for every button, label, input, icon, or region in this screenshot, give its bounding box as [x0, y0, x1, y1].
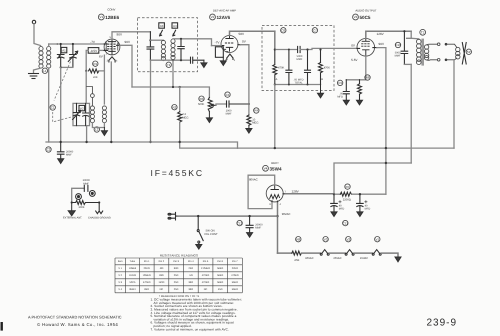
- node AC junction: [276, 215, 278, 217]
- wire B- bus left: [46, 142, 238, 148]
- capacitor C audio coupling: [227, 101, 249, 107]
- node bus x111.3: [110, 141, 112, 143]
- svg-text:90VAC: 90VAC: [282, 212, 291, 216]
- volume control R3: [198, 96, 216, 111]
- svg-text:22KΩ: 22KΩ: [144, 267, 150, 270]
- node AVC x179.7: [179, 86, 181, 88]
- capacitor couplate series 5000MMF: [298, 46, 301, 52]
- tube V1 pin numbers: [105, 36, 120, 55]
- svg-text:T1: T1: [167, 63, 171, 67]
- node x86.2 y70.9: [85, 70, 87, 72]
- node bus x179.7: [179, 141, 181, 143]
- wire couplate bottom bar: [275, 84, 321, 86]
- svg-text:R4: R4: [254, 109, 258, 113]
- gang line dashed: [53, 62, 73, 123]
- node bus x60.7: [60, 141, 62, 143]
- ground heater chain: [395, 257, 401, 262]
- svg-text:L2: L2: [95, 128, 99, 132]
- wire V3 plate to OPT: [366, 31, 411, 38]
- svg-text:300K: 300K: [78, 206, 84, 209]
- wire IF cap return to bus: [150, 60, 152, 142]
- svg-text:56KΩ: 56KΩ: [232, 281, 238, 284]
- wire OPT top frame: [407, 31, 412, 38]
- value 5000 MMF: [297, 55, 303, 61]
- ground filter cap 1: [331, 212, 337, 217]
- svg-text:35W4: 35W4: [270, 166, 282, 171]
- chassis squiggle ext: [96, 203, 103, 214]
- coil L1 secondary: [47, 47, 51, 69]
- node couplate bottom left: [274, 83, 276, 85]
- resistor R1 22K: [89, 61, 99, 79]
- svg-text:RECT: RECT: [271, 161, 279, 165]
- wire wiper to coupling cap: [216, 104, 227, 105]
- wire couplate series line: [275, 49, 298, 51]
- wire L2 bottom to ground: [92, 123, 104, 128]
- svg-text:V 2: V 2: [118, 274, 122, 277]
- value 40 MFD: [339, 204, 345, 210]
- ref speaker: [466, 49, 471, 54]
- wire heater chain 2: [302, 252, 321, 254]
- label SW ON VOL CONT: [204, 230, 218, 236]
- svg-text:MMF: MMF: [66, 154, 72, 157]
- terminal bullseye left: [76, 194, 82, 200]
- svg-text:CHASSIS GROUND: CHASSIS GROUND: [88, 217, 111, 220]
- tube V3 50C5 envelope: [357, 39, 375, 57]
- earth ground: [29, 74, 39, 79]
- svg-text:Pin 7: Pin 7: [232, 260, 238, 263]
- ground L2: [101, 128, 107, 136]
- wire RF grid line: [49, 43, 105, 45]
- ref C2: [46, 147, 51, 152]
- svg-text:25Ω: 25Ω: [189, 267, 194, 270]
- tube V2 internals: [224, 35, 234, 51]
- value 20000 MMF: [255, 223, 263, 229]
- wire grid box to osc tank: [86, 50, 88, 71]
- svg-text:MMF: MMF: [83, 182, 89, 185]
- ref L2: [94, 127, 99, 132]
- svg-text:15VAC: 15VAC: [360, 257, 368, 260]
- svg-text:V 1: V 1: [118, 267, 122, 270]
- svg-text:TOTAL: TOTAL: [294, 81, 303, 84]
- svg-text:126V: 126V: [377, 32, 385, 36]
- tube V4 pin stubs: [272, 194, 286, 203]
- wire OPT primary leads: [411, 37, 419, 40]
- IF secondary winding: [171, 39, 175, 60]
- svg-text:EXTERNAL ANT.: EXTERNAL ANT.: [63, 217, 82, 220]
- svg-text:22K: 22K: [93, 76, 98, 79]
- svg-text:MEG: MEG: [182, 116, 188, 119]
- wire V2 diode line: [240, 45, 249, 104]
- tube V4 35W4 envelope: [266, 185, 283, 202]
- ref heater chain 4: [375, 237, 380, 242]
- ground R4: [246, 125, 252, 133]
- svg-text:47Ω: 47Ω: [294, 259, 299, 262]
- external antenna circuit wires: [72, 188, 84, 202]
- svg-text:Pin 2: Pin 2: [159, 260, 165, 263]
- variable capacitor C1A tuning: [68, 44, 77, 67]
- svg-text:C7: C7: [313, 29, 317, 33]
- AC plug: [168, 212, 178, 220]
- svg-text:L1: L1: [43, 69, 47, 73]
- svg-text:Pin 6: Pin 6: [217, 260, 223, 263]
- svg-text:© Howard W. Sams & Co., Inc. 1: © Howard W. Sams & Co., Inc. 1954: [37, 322, 118, 327]
- IF primary winding: [161, 40, 165, 60]
- node switch tap: [197, 215, 199, 217]
- svg-text:470KΩ: 470KΩ: [202, 281, 210, 284]
- svg-text:80VAC: 80VAC: [249, 177, 258, 181]
- node ext ant right: [98, 201, 100, 203]
- ref heater chain 2: [323, 237, 328, 242]
- svg-text:V 4: V 4: [118, 288, 122, 291]
- resistor filter 2200: [334, 184, 352, 202]
- antenna terminal: [32, 20, 35, 23]
- svg-text:56KΩ: 56KΩ: [217, 267, 223, 270]
- svg-text:12BE6: 12BE6: [129, 267, 137, 270]
- ground volume control: [206, 112, 212, 123]
- svg-text:Pin 4: Pin 4: [188, 260, 194, 263]
- svg-text:AUDIO OUTPUT: AUDIO OUTPUT: [355, 9, 376, 13]
- svg-text:IF=455KC: IF=455KC: [151, 168, 204, 178]
- svg-text:.5Ω: .5Ω: [189, 274, 193, 277]
- value 40 MFD 2: [365, 204, 371, 210]
- node IF bottom x181: [180, 59, 182, 61]
- resistor 47 ohm heater: [292, 251, 302, 262]
- tube ref V2 circle: [210, 14, 216, 20]
- svg-text:10MEΩ: 10MEΩ: [143, 274, 151, 277]
- svg-text:56KΩ: 56KΩ: [217, 274, 223, 277]
- node bus x86.6: [85, 141, 87, 143]
- wire V3 cathode bar: [346, 56, 366, 80]
- heater V1 symbol: [372, 250, 381, 256]
- wire V1 plate to IF: [112, 32, 150, 39]
- svg-text:MEG: MEG: [252, 121, 258, 124]
- tube V3 pin stubs: [357, 47, 377, 50]
- svg-text:25Ω: 25Ω: [174, 288, 179, 291]
- capacitor IF secondary tuning: [178, 39, 184, 60]
- svg-text:470KΩ: 470KΩ: [143, 281, 151, 284]
- svg-text:V3: V3: [324, 237, 328, 241]
- node bus2 x385.9: [385, 147, 387, 149]
- wire 22K to cathode: [99, 55, 105, 71]
- capacitor couplate C: [305, 50, 311, 85]
- wire cathode line down to osc coil: [103, 71, 105, 104]
- wire V4 plate loop: [248, 175, 275, 208]
- OPT primary winding: [417, 39, 422, 64]
- svg-text:C9: C9: [338, 81, 342, 85]
- svg-text:22KΩ: 22KΩ: [232, 267, 238, 270]
- tube V4 pin numbers: [269, 190, 286, 206]
- notes block: [151, 298, 242, 332]
- ground couplate: [318, 85, 324, 98]
- wire IF bottom bar: [150, 59, 190, 61]
- svg-text:33Ω: 33Ω: [189, 281, 194, 284]
- IF transformer dashed box: [138, 18, 198, 72]
- wire tank bottom to bus: [86, 126, 88, 142]
- svg-text:Item: Item: [118, 260, 123, 263]
- switch SW on volume: [197, 216, 203, 244]
- ground switch: [196, 245, 202, 250]
- wire osc feed down to tank: [85, 71, 87, 104]
- svg-text:.8Ω: .8Ω: [159, 267, 163, 270]
- oscillator coil L2 right winding: [102, 106, 106, 123]
- svg-text:5.5V: 5.5V: [351, 58, 358, 62]
- tube V1 12BE6 envelope: [104, 39, 120, 55]
- node junction top wire x72.9: [72, 43, 74, 45]
- svg-text:150Ω: 150Ω: [158, 281, 164, 284]
- node B+ screen junction: [385, 162, 387, 164]
- ref heater chain 1: [296, 237, 301, 242]
- svg-text:MFD: MFD: [337, 96, 343, 99]
- OPT core: [421, 39, 424, 66]
- svg-text:R6: R6: [366, 76, 370, 80]
- node couplate input: [274, 48, 276, 50]
- tube ref V1 circle: [98, 14, 104, 20]
- svg-text:SP: SP: [467, 50, 471, 54]
- svg-text:C11: C11: [343, 221, 349, 225]
- svg-text:MMF: MMF: [226, 112, 232, 115]
- svg-text:B: B: [321, 78, 323, 81]
- ref cathode cap: [337, 80, 342, 85]
- svg-text:25VAC: 25VAC: [333, 257, 341, 260]
- tube V2 heater pins: [225, 59, 236, 62]
- node plate line at cap: [403, 30, 405, 32]
- wire antenna lead-in: [34, 24, 41, 46]
- svg-text:RESISTANCE READINGS: RESISTANCE READINGS: [160, 254, 198, 258]
- tube ref V3 circle: [353, 14, 359, 20]
- ref filter caps: [343, 220, 349, 225]
- svg-text:C1: C1: [51, 106, 55, 110]
- svg-text:A PHOTOFACT STANDARD NOTATION: A PHOTOFACT STANDARD NOTATION SCHEMATIC: [28, 315, 122, 320]
- svg-text:V3: V3: [354, 15, 358, 19]
- ref couplate left: [281, 28, 286, 33]
- wire V2 plate to couplate: [230, 31, 275, 35]
- ground external ant: [68, 203, 75, 216]
- ground cathode resistor: [357, 100, 363, 105]
- tube ref V4 circle: [263, 165, 269, 171]
- tube V2 12AV6 envelope: [221, 36, 238, 53]
- svg-text:Pin 5: Pin 5: [203, 260, 209, 263]
- wire V2 grid: [212, 45, 222, 47]
- ref C1 gang: [50, 105, 55, 110]
- ground line cap: [247, 233, 253, 238]
- wire heater chain 4: [354, 252, 372, 254]
- svg-text:V4: V4: [264, 167, 268, 171]
- wire OPT B+ drop: [410, 64, 412, 163]
- node bus x150.5: [149, 141, 151, 143]
- node AVC x173: [172, 86, 174, 88]
- adjust A1 antenna trimmer: [59, 47, 67, 57]
- ref T1: [166, 62, 171, 67]
- svg-text:12AV6: 12AV6: [217, 15, 231, 20]
- wire speaker leads: [446, 44, 457, 60]
- trimmer capacitor C1A trimmer: [57, 44, 64, 67]
- resistor cathode R6: [358, 75, 371, 100]
- terminal bullseye right: [89, 191, 95, 197]
- heater V2: [227, 54, 233, 60]
- svg-text:C10: C10: [395, 43, 401, 47]
- adjust A4: [172, 23, 178, 36]
- node IF bottom x173: [172, 59, 174, 61]
- ref L1: [42, 68, 47, 73]
- capacitor filter output 40MFD: [357, 194, 368, 212]
- svg-text:MFD: MFD: [365, 207, 371, 210]
- svg-text:A3: A3: [160, 24, 164, 28]
- value coupling cap: [226, 109, 232, 115]
- svg-text:A1: A1: [62, 49, 66, 53]
- capacitor IF bypass to ground: [191, 57, 204, 63]
- svg-text:NC: NC: [160, 288, 164, 291]
- heater V1: [109, 57, 115, 62]
- wire IF secondary top out: [173, 39, 212, 46]
- wire V4 cathode B+: [286, 193, 335, 195]
- svg-text:58V: 58V: [239, 32, 245, 36]
- ground chassis cap: [58, 159, 64, 164]
- svg-text:12BE6: 12BE6: [105, 15, 119, 20]
- svg-text:DET-AVC-AF AMP: DET-AVC-AF AMP: [213, 9, 236, 13]
- tube V1 internals: [106, 39, 118, 55]
- antenna coil L1 primary: [39, 47, 43, 69]
- tube V2 pin stubs: [221, 44, 240, 47]
- node B+ input: [333, 193, 335, 195]
- value .05 MFD TOTAL: [294, 78, 304, 84]
- wire V4 heater to AC and heater string: [277, 203, 279, 253]
- speaker terminal dots: [445, 43, 448, 46]
- svg-text:90V: 90V: [379, 42, 385, 46]
- heater V2 symbol: [345, 250, 354, 256]
- oscillator coil L2 left winding: [90, 106, 94, 123]
- adjust A2 osc trimmer: [79, 105, 85, 110]
- edge tick: [1, 322, 3, 331]
- couplate dashed box: [262, 25, 334, 90]
- svg-text:50C5: 50C5: [360, 15, 371, 20]
- svg-text:R7: R7: [346, 185, 350, 189]
- resistor R2 2.2MEG: [172, 87, 238, 148]
- tube V1 heater pin numbers: [107, 59, 118, 62]
- svg-text:90V: 90V: [117, 33, 123, 37]
- svg-text:25Ω: 25Ω: [174, 274, 179, 277]
- value 20000 MMF ext: [83, 179, 91, 185]
- variable capacitor C1B osc: [73, 103, 81, 125]
- wire couplate input drop: [274, 31, 276, 49]
- capacitor 5000MMF across OPT: [401, 31, 408, 64]
- ref C coupling: [225, 92, 230, 97]
- node couplate bottom mid dots: [288, 84, 290, 86]
- value 20000 MMF chassis: [66, 151, 74, 157]
- svg-text:A4: A4: [173, 24, 177, 28]
- ground IF bypass: [201, 60, 207, 67]
- value .05 MFD: [337, 93, 343, 99]
- resistor 470K B: [319, 50, 331, 85]
- svg-text:Pin 1: Pin 1: [144, 260, 150, 263]
- speaker magnet: [462, 43, 466, 65]
- wire osc grid from pin1: [99, 49, 104, 51]
- tube V4 internals: [270, 185, 280, 199]
- svg-text:R2: R2: [172, 105, 176, 109]
- oscillator tank outline: [73, 103, 90, 125]
- svg-text:85VAC: 85VAC: [305, 257, 313, 260]
- svg-text:56KΩ: 56KΩ: [217, 281, 223, 284]
- svg-text:R8: R8: [296, 237, 300, 241]
- svg-text:R3: R3: [200, 97, 204, 101]
- wire B- bus right: [238, 147, 455, 149]
- OPT secondary winding: [424, 45, 428, 60]
- wire filter output: [352, 193, 386, 195]
- wire heater chain 3: [329, 252, 345, 254]
- svg-text:7. Volume control at minimum,: 7. Volume control at minimum, on equipme…: [151, 327, 229, 331]
- wire V3 screen to B+: [377, 48, 386, 195]
- svg-text:470K: 470K: [324, 67, 330, 70]
- svg-text:V 3: V 3: [118, 281, 122, 284]
- svg-text:MMF: MMF: [395, 54, 401, 57]
- wire tuning cap return to bus: [60, 67, 62, 142]
- svg-text:C6: C6: [281, 29, 285, 33]
- wire heater V1 to bus: [110, 62, 112, 142]
- coil L2 tap loop: [86, 87, 94, 106]
- svg-text:45Ω: 45Ω: [218, 288, 223, 291]
- svg-text:NC: NC: [204, 288, 208, 291]
- svg-text:T2: T2: [421, 31, 425, 35]
- wire couplate return to bus: [274, 85, 276, 149]
- svg-text:C4: C4: [226, 93, 230, 97]
- ref couplate right: [312, 28, 317, 33]
- svg-text:56KΩ: 56KΩ: [232, 288, 238, 291]
- capacitor filter input 40MFD: [331, 194, 341, 212]
- node series line B: [319, 48, 321, 50]
- svg-text:470K: 470K: [278, 67, 284, 70]
- svg-text:33Ω: 33Ω: [189, 288, 194, 291]
- svg-text:Tube: Tube: [130, 260, 136, 263]
- ref heater chain 3: [346, 237, 351, 242]
- tube V3 internals: [361, 38, 370, 56]
- node junction top wire x60.7: [60, 43, 62, 45]
- ref C10: [395, 42, 401, 47]
- svg-text:33Ω: 33Ω: [159, 274, 164, 277]
- wire couplate to 50C5 grid: [300, 48, 357, 49]
- svg-text:R1: R1: [93, 62, 97, 66]
- capacitor line to chassis 20000MMF: [57, 142, 64, 159]
- svg-text:500K: 500K: [198, 103, 204, 106]
- capacitor external ant 20000MMF: [84, 185, 88, 191]
- svg-text:470KΩ: 470KΩ: [231, 274, 239, 277]
- value 5000 MMF OPT: [395, 51, 401, 57]
- ref line cap: [237, 220, 243, 225]
- wire IF secondary bottom AVC drop: [172, 60, 174, 87]
- wire OPT secondary leads with terminals: [427, 43, 440, 61]
- wire trimmer/varcap bottoms joined: [61, 66, 73, 68]
- ref T2: [420, 29, 426, 35]
- svg-text:C12: C12: [237, 221, 243, 225]
- diode box V2: [215, 47, 223, 58]
- svg-text:12AV6: 12AV6: [129, 274, 137, 277]
- node filter output: [359, 193, 361, 195]
- wire AC line: [178, 215, 278, 217]
- svg-text:VOL CONT: VOL CONT: [204, 233, 218, 236]
- svg-text:MMF: MMF: [297, 58, 303, 61]
- svg-text:85Ω: 85Ω: [144, 288, 149, 291]
- tube V1 pin stubs: [104, 44, 120, 50]
- svg-text:50C5: 50C5: [129, 281, 135, 284]
- heater V3 symbol: [320, 250, 329, 256]
- wire L1 secondary bottom to B- bus: [48, 68, 50, 142]
- adjust A3: [159, 23, 165, 36]
- wire OPT cap leg to rail: [404, 63, 411, 65]
- table grid: [115, 258, 242, 293]
- node series line right: [306, 48, 308, 50]
- node ext ant left: [71, 201, 73, 203]
- wire V1 screen: [120, 45, 132, 87]
- capacitor line bypass 20000MMF: [246, 216, 253, 232]
- node x60.7 y67.4: [60, 66, 62, 68]
